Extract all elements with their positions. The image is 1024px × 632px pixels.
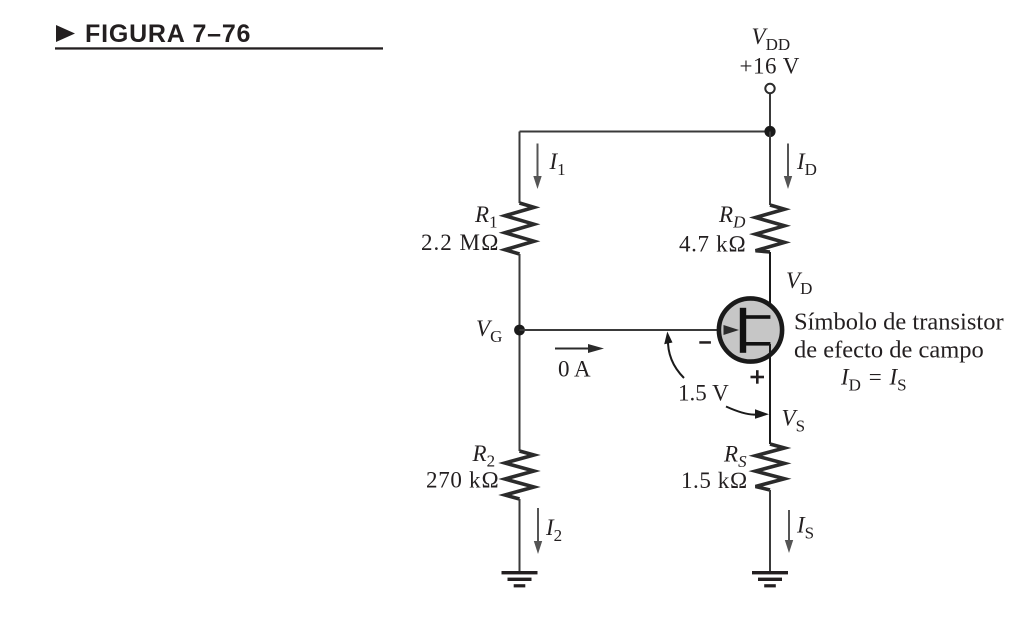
arrow ID: [784, 144, 792, 190]
svg-text:de efecto de campo: de efecto de campo: [794, 337, 984, 364]
wire source out of transistor: [769, 344, 771, 444]
svg-text:2.2 MΩ: 2.2 MΩ: [421, 230, 500, 255]
transistor gate bar: [740, 308, 746, 353]
svg-text:I1: I1: [549, 149, 566, 179]
resistor R2: [505, 451, 534, 499]
wire left branch upper (junction to R1): [519, 132, 521, 204]
wire gate from VG to transistor: [520, 329, 725, 331]
svg-text:VS: VS: [782, 406, 806, 436]
svg-text:I2: I2: [545, 515, 562, 545]
transistor drain bar: [746, 315, 770, 319]
transistor source bar: [746, 342, 770, 346]
figure title underline: [55, 47, 383, 49]
svg-text:VD: VD: [786, 268, 812, 298]
arrow I2: [534, 508, 542, 554]
node junction dot at VDD rail: [764, 126, 775, 137]
svg-text:RS: RS: [723, 442, 747, 472]
svg-text:FIGURA 7–76: FIGURA 7–76: [85, 20, 251, 48]
curved arrow from 1.5 V to source wire: [726, 407, 769, 419]
svg-text:VDD: VDD: [752, 24, 791, 54]
svg-text:Símbolo de transistor: Símbolo de transistor: [794, 309, 1004, 336]
svg-text:R2: R2: [472, 441, 496, 471]
figure title arrow: [56, 25, 75, 42]
ground right: [752, 571, 788, 587]
arrow I1: [533, 144, 541, 190]
wire drain into transistor: [769, 252, 771, 317]
svg-text:R1: R1: [474, 202, 498, 232]
wire left branch lower (R2 to ground): [519, 499, 521, 571]
transistor Q1 FET body circle: [719, 298, 782, 361]
node VG dot: [514, 325, 525, 336]
svg-text:270 kΩ: 270 kΩ: [426, 468, 500, 493]
VDD terminal open circle: [765, 84, 774, 93]
wire top horizontal from left branch to VDD junction: [520, 131, 771, 133]
svg-text:1.5 V: 1.5 V: [678, 381, 729, 406]
resistor RD: [756, 205, 785, 252]
svg-text:ID = IS: ID = IS: [840, 365, 907, 395]
wire VDD terminal stub: [769, 93, 771, 132]
svg-text:ID: ID: [796, 149, 817, 179]
minus sign: [699, 341, 711, 344]
arrow IS: [785, 510, 793, 553]
transistor gate arrowhead: [724, 325, 740, 335]
curved arrow from 1.5 V to gate wire: [664, 332, 684, 379]
wire right branch upper (junction to RD): [769, 132, 771, 206]
svg-text:IS: IS: [796, 513, 814, 543]
svg-text:VG: VG: [476, 316, 502, 346]
wire left branch middle (R1 to R2) through VG: [519, 254, 521, 451]
svg-text:RD: RD: [718, 202, 746, 232]
resistor RS: [756, 444, 785, 490]
plus sign: [751, 370, 765, 384]
svg-text:4.7 kΩ: 4.7 kΩ: [679, 232, 747, 257]
arrow 0 A: [555, 344, 604, 353]
svg-text:1.5 kΩ: 1.5 kΩ: [681, 468, 748, 493]
wire right branch lower (RS to ground): [769, 490, 771, 571]
svg-text:+16 V: +16 V: [740, 54, 800, 79]
ground left: [502, 571, 538, 587]
resistor R1: [505, 203, 534, 254]
svg-text:0 A: 0 A: [558, 357, 591, 382]
